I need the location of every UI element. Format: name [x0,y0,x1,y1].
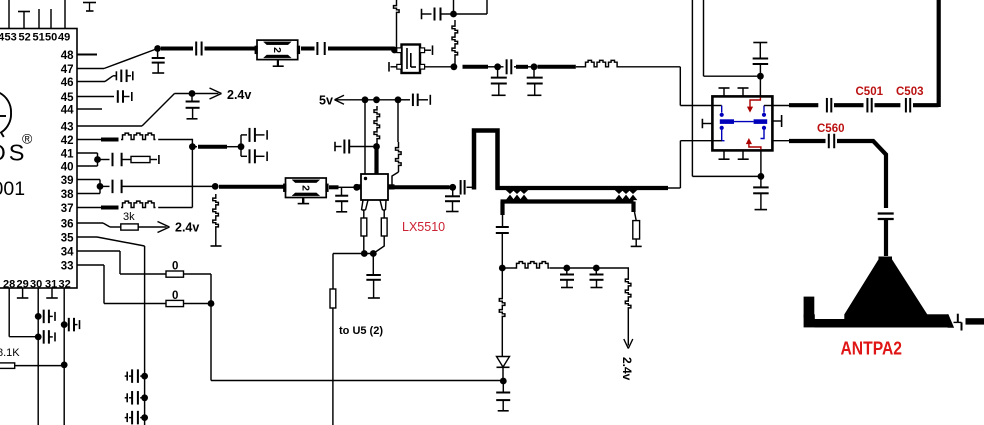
node RXc dot [531,63,538,70]
svg-text:52: 52 [19,32,31,44]
capacitor C-E to ground [366,254,381,299]
svg-text:2.4v: 2.4v [175,221,199,235]
wire U4 to C-ant [772,105,789,107]
T1 secondary teeth set 2 [616,195,637,199]
wire osc node up [453,0,455,14]
ground of filter F1 [273,60,284,67]
node 41/40 dot [94,156,101,163]
pin 34 wire [77,251,166,274]
thick wire F1 to C-RX2 [301,47,315,51]
node D1 dot [500,378,507,385]
wire node 42A down to pin 37 [191,147,193,208]
node 30B dot [35,334,42,341]
svg-text:38: 38 [61,189,74,201]
wire pin42 to node [158,139,192,147]
capacitor C-feed [878,214,894,257]
capacitor stub top-left [83,3,96,12]
svg-text:2.4v: 2.4v [227,88,251,102]
thick wire 42A-42B [192,146,238,148]
2.4v label (pin36) [175,221,199,235]
svg-text:44: 44 [61,105,74,117]
node VC dot [499,265,506,272]
node 5v-A dot [362,96,369,103]
wire to VC nodes [550,267,622,269]
svg-text:31: 31 [45,279,57,291]
U3 right pad [388,184,395,189]
capacitor to ground below 2.4v node [186,94,200,119]
U4 internal blue lower right [761,126,767,139]
svg-text:33: 33 [61,261,74,273]
IC U1 body [0,29,77,289]
thick bias bar into U3 [374,147,378,174]
svg-text:37: 37 [61,203,74,215]
inductor L-D [499,268,505,356]
0 label upper [172,261,178,273]
capacitor C-sec [496,227,509,268]
inductor L-TX to ground [211,194,222,246]
svg-text:39: 39 [61,175,74,187]
node PA-out dot [449,184,456,191]
svg-text:30: 30 [30,279,42,291]
transformer T1 secondary line [501,199,634,203]
node VC1 dot [563,265,570,272]
T1 secondary teeth set 1 [507,195,528,199]
capacitor C-RX2 [317,42,324,55]
node 35-3 dot [141,414,148,421]
svg-text:001: 001 [0,178,25,200]
svg-text:36: 36 [61,219,74,231]
capacitor to ground at VC1 [560,268,574,288]
svg-text:8.1K: 8.1K [0,347,20,359]
wire emitter bus [333,253,373,255]
U4 internal red arrow top [747,98,760,113]
node 39/38 dot [97,183,104,190]
capacitor stub at 35-3 [125,411,145,425]
T1 primary teeth set 1 [507,190,528,193]
antenna feed gap element [954,314,984,331]
capacitor C-RX3 [498,59,512,74]
wire R0-lower to bus [184,303,212,305]
ANTPA2 label [841,338,903,359]
resistor 3k [121,224,138,230]
capacitor stub at 35-2 [125,391,145,405]
terminal after R-41 [150,155,159,164]
svg-text:34: 34 [61,247,74,259]
3k label [123,211,135,223]
node 5v-B dot [373,96,380,103]
crystal/filter U2 body [402,45,421,74]
IC U1 part number 001 [0,178,25,200]
node 5v-C dot [395,96,402,103]
svg-text:LX5510: LX5510 [402,220,445,234]
capacitor stub right of 5v rail [398,94,430,107]
IC U1 bottom pin labels 28-32 [3,279,71,291]
node bus dot [208,300,215,307]
wire 5v-C down [397,100,399,142]
pin 37 wire [77,207,119,209]
pin 54 wire [8,0,10,29]
pin 43 wire to 2.4v [77,94,192,127]
thick wire C-RX1 to filter F1 [205,47,258,51]
wire osc node right and up [454,0,488,14]
thick wire C503 to corner [913,103,939,107]
T1 secondary left leg [500,202,504,228]
capacitor stub at 35-1 [125,369,145,383]
resistor R-term [633,221,640,239]
pin 52 wire [38,9,40,29]
pin 29 ground [17,288,29,298]
thick wire RX node to C-RX1 [161,47,193,51]
capacitor to ground at VC2 [590,268,604,288]
U4 right mid terminal [772,115,781,127]
capacitor C-PA series [461,180,474,195]
5v arrow [335,95,399,104]
pin 33 wire [77,265,166,304]
wire U2 out [425,66,454,68]
resistor R-U5 [330,289,336,308]
C503 label [896,86,924,98]
node VC2 dot [593,265,600,272]
T1 primary teeth set 2 [616,190,637,193]
U4 internal red arrow bottom [746,139,761,150]
2.4v arrow down [624,312,633,349]
capacitor to ground at PA-out [445,187,460,211]
capacitor stub at 30B [38,330,55,344]
capacitor C-RX1 [196,42,201,56]
inductor L-37 [121,201,156,207]
inductor L-out (RF choke) [396,142,402,172]
to U5 (2) label [339,325,383,337]
svg-text:40: 40 [61,162,74,174]
svg-text:ANTPA2: ANTPA2 [841,338,903,359]
inductor L-24 [622,268,631,312]
thick wire C501 to C503 [875,103,901,107]
pin 42 wire [77,139,119,141]
U4 internal blue contact left [712,106,734,122]
svg-text:2.4v: 2.4v [620,357,634,381]
wire top feed 2 [704,0,758,76]
U4 top pin B [738,88,749,96]
ground of filter F2 [298,198,310,204]
U4 internal blue contact right [754,106,773,122]
5v label [319,94,333,108]
capacitor C503 [906,98,910,113]
capacitor to ground at F2 output [335,187,348,212]
node 32B dot [61,362,68,369]
pin 49 wire [64,0,66,29]
2.4v arrow (pin43) [192,88,222,99]
wire ctl to U4 [759,76,761,96]
2.4v arrow (pin36) [138,222,169,233]
C501 label [856,86,884,98]
U4 bottom pin B [738,150,749,159]
LX5510 label [402,220,445,234]
antenna ANTPA2 symbol [804,257,954,328]
capacitor stub at 32A [64,318,79,332]
thick wire C-ant to C501 [834,103,864,107]
capacitor C501 [867,98,871,113]
capacitor stub lower at 42B [241,147,267,164]
capacitor C-41 [98,153,132,167]
U4 bottom center pin [760,150,762,176]
pin 31 ground [46,288,58,298]
C560 label [817,123,845,135]
wire U4 to C560 [772,140,789,142]
node ctl dot [757,73,764,80]
node 35-2 dot [141,394,148,401]
svg-text:50: 50 [45,32,57,44]
svg-text:46: 46 [61,77,74,89]
pins 39/38 wires joined [77,180,100,194]
svg-text:43: 43 [61,122,74,134]
pin 35 wire diagonal [77,237,145,246]
svg-text:®: ® [22,131,33,147]
pin 48 stub [77,54,97,56]
filter F2 (SAW, label 2) [283,178,329,198]
svg-text:0: 0 [172,290,178,302]
T1 secondary right leg [634,202,637,221]
bus wire down and right to diode node [211,304,504,381]
wire T1 primary to switch [668,141,712,188]
wire top feed 1 [692,0,758,176]
thick wire U3 out [395,185,450,189]
2.4v label (pin43) [227,88,251,102]
capacitor C560 [829,134,834,149]
transformer T1 primary line [496,186,669,190]
capacitor C-ctl [753,43,769,77]
svg-text:C503: C503 [896,86,924,98]
U4 top pin A [719,88,730,96]
svg-text:48: 48 [61,50,74,62]
node 2.4v dot (pin43) [189,90,196,97]
svg-text:3k: 3k [123,211,135,223]
thick wire RXc right [538,65,576,69]
U3 emitter funnels [362,200,387,218]
pin 53 wire with terminal [18,12,30,29]
node TX-in dot [212,183,219,190]
node U3-in dot [353,184,360,191]
8.1K label [0,347,20,359]
pin 45 wire + capacitor stub [77,90,132,103]
thick wire TX-in to filter F2 [219,185,285,189]
node U4-gnd dot [758,173,765,180]
U2 right-top terminal [425,45,433,55]
pin 47 wire + diagonal to RX node [77,49,158,69]
svg-text:2: 2 [271,47,283,53]
thick wire C-RX3 to RXc [514,66,531,68]
inductor L-U2 top feed [394,0,400,49]
pin 51 wire [50,9,52,29]
U4 internal blue bridge [734,121,754,123]
svg-text:2: 2 [299,185,311,191]
ground of R-term [631,239,642,246]
pin 44 stub [77,108,102,110]
0 label lower [172,290,178,302]
wire pin35 vertical [144,246,146,425]
svg-text:42: 42 [61,135,74,147]
node 42A dot [189,143,196,150]
capacitor stub upper at 42B [241,128,267,147]
IC U1 logo arc [0,93,11,138]
svg-text:C501: C501 [856,86,884,98]
IC U1 registered mark [22,131,33,147]
thick wire to C-ant [789,103,818,107]
U2 left-bottom terminal [389,62,397,72]
U4 internal blue lower left [712,126,724,141]
wire choke to U3 output [392,172,399,185]
inductor L-42 [121,133,156,139]
thick wire C560 to bend [837,141,886,208]
node osc dot [450,11,457,18]
node RX dot [154,45,161,52]
wire 5v-A to U3 pin [364,100,366,174]
pin 28 wire [9,288,38,337]
2.4v vertical label [620,357,634,381]
wire 8.1K to pin32 line [15,365,64,367]
svg-text:51: 51 [33,32,45,44]
resistor R-E1 [361,218,367,236]
resistor 0 (upper) [166,271,184,277]
U4 left mid terminal [702,119,712,129]
svg-text:to U5 (2): to U5 (2) [339,325,383,337]
pin 30 wire down [37,288,39,425]
capacitor C-bias [335,140,377,154]
capacitor to ground at RX node [152,49,165,74]
node U2-in dot [391,47,398,54]
svg-text:0: 0 [172,261,178,273]
node RXb dot [494,63,501,70]
inductor L-5v [374,106,380,144]
node U3-bias dot [373,143,380,150]
wire L-37 to node 42A column [158,207,192,209]
antenna switch U4 body [712,96,772,150]
node 35-1 dot [141,373,148,380]
pin 36 wire [77,223,121,227]
resistor 8.1K [0,363,15,369]
capacitor stub at 30A [38,310,55,324]
IC U1 top pin labels 54 53 52 51 50 49 [0,32,70,44]
thick wire to C560 [789,139,826,143]
svg-text:53: 53 [5,32,17,44]
node 30A dot [35,313,42,320]
node 42B dot [238,143,245,150]
inductor L-RX [576,60,619,66]
IC U3 LX5510 body [361,174,388,200]
thick wire RXa [463,65,496,69]
svg-text:45: 45 [61,92,74,104]
IC U1 logo text OS [0,140,27,166]
thick wire F2 to U3 [329,185,354,189]
pin 46 wire + floating capacitor [77,70,133,83]
pins 41/40 wires joined [77,153,98,166]
U4 bottom pin A [719,150,730,159]
wires emitters down [364,236,384,254]
node RXa dot [451,63,458,70]
node E2 dot [370,250,377,257]
pin 32 wire down [63,288,65,425]
filter F1 (SAW, label 2) [255,40,301,60]
wire L-RX to switch U4 [618,67,712,106]
U2 pin pads [397,48,425,69]
svg-text:49: 49 [58,32,70,44]
thick wire C-RX2 to crystal U2 [328,47,395,51]
node 32A dot [61,321,68,328]
capacitor to ground at D1 [496,381,510,411]
resistor R-E2 [381,218,387,236]
wire to U5 going down [332,308,334,425]
capacitor C-ant [827,98,831,113]
capacitor C-osc top [422,8,454,21]
IC U1 right-edge pin number labels 48-33 [61,50,74,273]
thick wire up to top edge [937,0,941,107]
wire bus to R-U5 [332,254,334,290]
U3 left pad [355,184,362,189]
capacitor to ground at RXc [527,67,543,96]
svg-text:41: 41 [61,149,74,161]
capacitor to ground at RXb [491,67,507,96]
node E1 dot [361,250,368,257]
inductor L-VC [502,262,549,268]
svg-text:C560: C560 [817,123,845,135]
resistor 0 (lower) [166,300,184,306]
svg-text:47: 47 [61,64,74,76]
inductor L-osc [452,20,458,67]
microstrip staple [474,131,498,190]
svg-text:5v: 5v [319,94,333,108]
capacitor to ground below U4 [753,176,769,209]
capacitor C-39 [100,180,215,194]
diode D1 [497,357,510,381]
resistor R-41 [131,156,150,162]
wire R0-upper to bus [184,274,212,304]
svg-text:35: 35 [61,233,74,245]
